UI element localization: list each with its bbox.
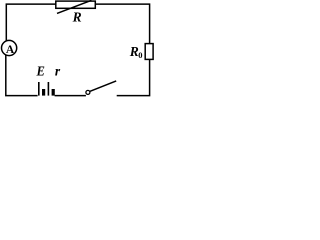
rheostat R slash (adjustment arrow)	[57, 0, 92, 13]
battery cell 1 short plate	[42, 89, 45, 96]
switch pivot circle	[86, 90, 90, 94]
svg-text:A: A	[6, 44, 15, 56]
battery cell 2 long plate	[47, 82, 49, 96]
svg-text:E: E	[36, 64, 45, 79]
resistor R0 box	[145, 44, 153, 60]
wire: top-left segment (corner to rheostat)	[6, 4, 56, 41]
wire: bottom-left segment (battery to bottom-left corner and up to ammeter)	[6, 55, 38, 96]
ammeter A circle	[2, 40, 17, 55]
rheostat R box	[56, 1, 96, 8]
switch lever	[90, 81, 117, 92]
wire: bottom segment from switch pivot to battery	[55, 95, 86, 97]
svg-text:0: 0	[138, 50, 142, 60]
battery cell 1 long plate	[38, 82, 40, 96]
background	[0, 0, 155, 105]
wire: top-right segment (rheostat to top-right corner)	[95, 4, 149, 44]
battery cell 2 short plate	[52, 89, 55, 96]
svg-text:R: R	[72, 9, 82, 24]
svg-text:r: r	[55, 64, 61, 79]
wire: right segment below R0 down to bottom-right corner and left to switch	[117, 59, 150, 95]
